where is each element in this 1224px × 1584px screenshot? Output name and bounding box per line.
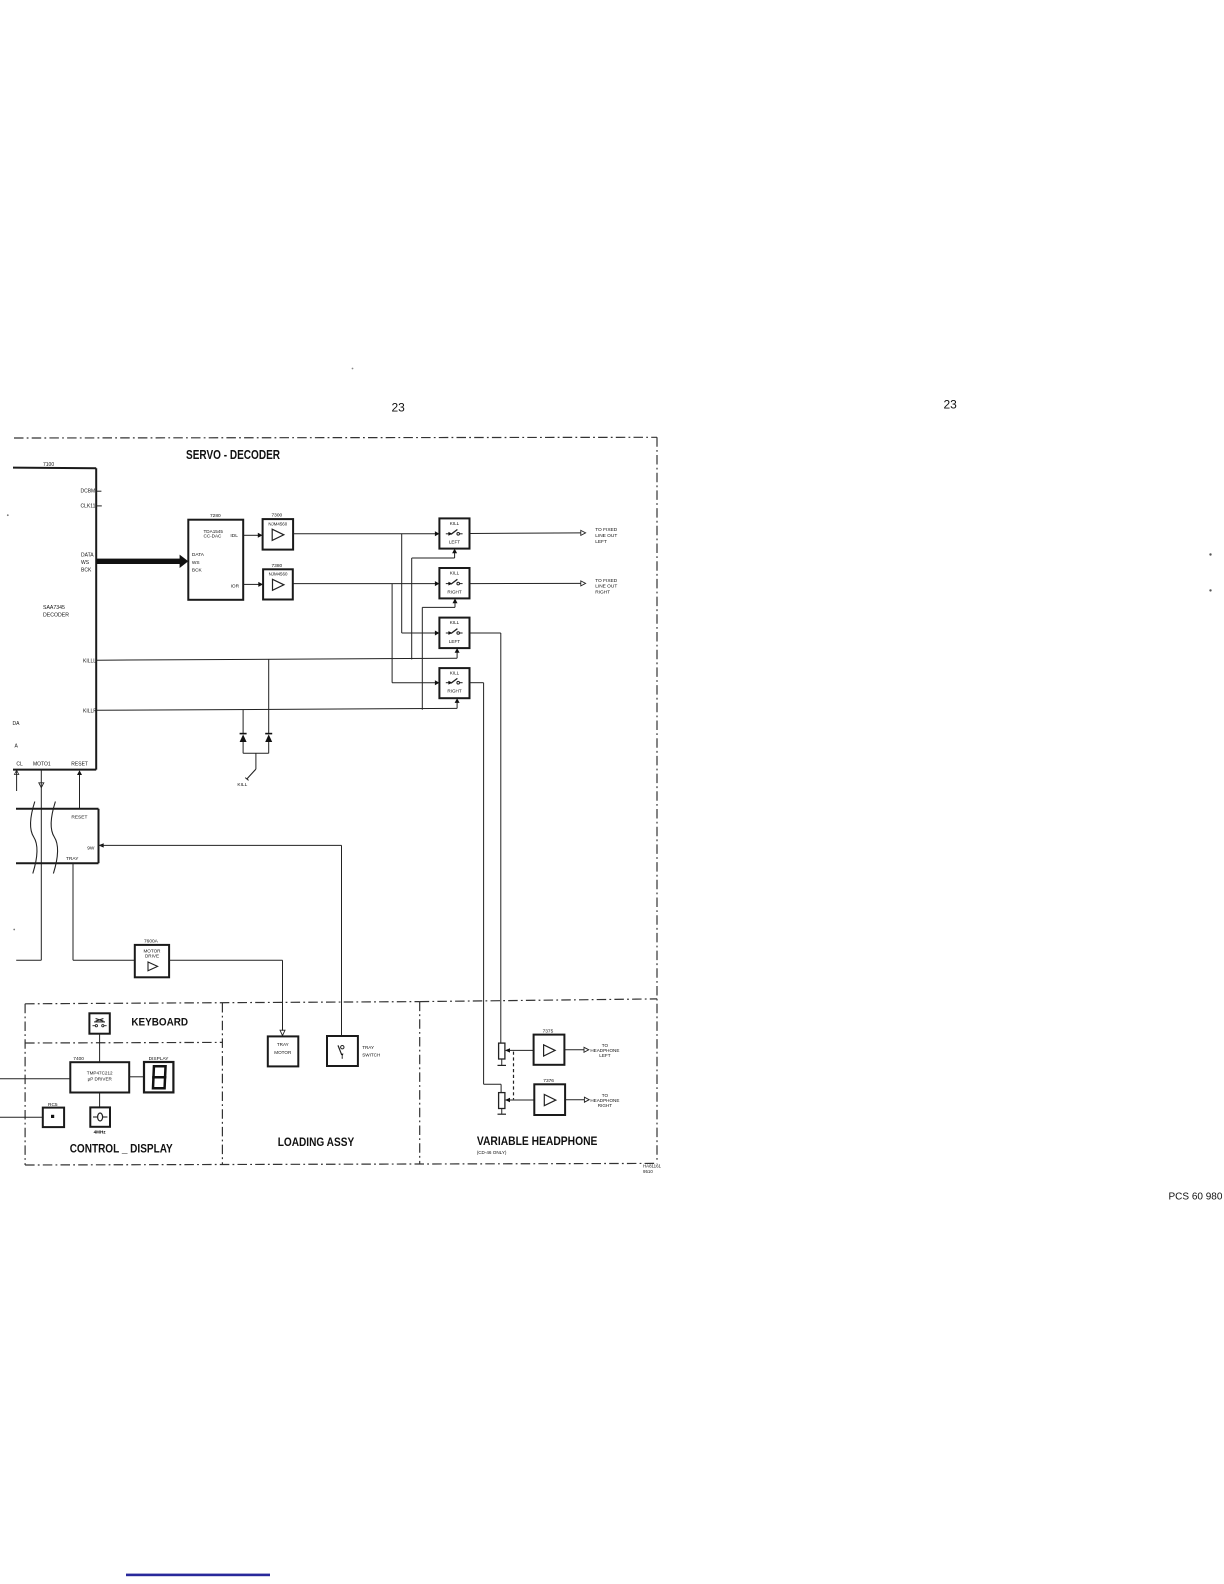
scan speck 1 [1209,553,1211,555]
diode D2 [265,734,272,754]
amp 7375 headphone left [534,1035,565,1065]
svg-text:MOTO1: MOTO1 [33,761,51,767]
svg-text:WS: WS [192,560,200,566]
wire 7376 output to headphone right [565,1097,589,1102]
svg-text:LEFT: LEFT [449,639,460,644]
RC5 receiver block [43,1108,64,1128]
svg-text:23: 23 [944,398,958,412]
switch block KILL LEFT 2 [439,618,469,649]
label TMP47C212 uP DRIVER [87,1071,113,1082]
tray switch S2 [327,1036,358,1066]
wire KILL LEFT 1 output to fixed line out left [470,530,586,535]
svg-text:IDL: IDL [230,533,238,539]
svg-text:LEFT: LEFT [599,1053,610,1058]
IC U7100 SAA7345 decoder block (cut off at left page edge) [13,468,96,770]
pin CLK11 [81,504,102,510]
svg-text:7380: 7380 [272,563,283,569]
scan speck 5 [352,368,354,370]
svg-text:4MHz: 4MHz [94,1130,107,1135]
wire TRAY to motor drive [73,863,135,960]
wire keyboard to uP [99,1034,101,1063]
potentiometer R2 (headphone level right) [498,1093,535,1115]
tray motor M1 [268,1036,299,1066]
svg-text:BCK: BCK [192,568,203,574]
svg-text:SERVO - DECODER: SERVO - DECODER [186,448,280,462]
svg-text:NJM4560: NJM4560 [268,521,287,526]
crystal X1 4MHz [90,1107,110,1126]
svg-text:KILLR: KILLR [83,709,97,715]
IC tray-control block (cut off, RESET / 9W / TRAY) [16,809,99,863]
junction bar below diodes [243,752,269,754]
IC 7400 TMP47C212 uP driver [70,1062,129,1092]
ganged wiper dashed link [513,1052,515,1100]
switch block KILL LEFT 1 [439,518,469,548]
scan speck 4 [13,929,15,931]
svg-text:SWITCH: SWITCH [362,1052,380,1057]
amp 7600A motor drive [135,945,169,977]
svg-text:DECODER: DECODER [43,613,69,619]
wire branch audio L down to KILL LEFT 2 [402,534,440,636]
wire KILL LEFT 2 output down to headphone pot 1 [470,633,501,1043]
svg-text:DA: DA [13,721,21,727]
wire KILL RIGHT 2 output down to headphone pot 2 [470,683,502,1093]
SERVO-DECODER dash-dot border right [656,437,658,1163]
scan speck 2 [1209,589,1211,591]
wire KILLL to diode D2 [268,659,270,733]
svg-text:KILL: KILL [450,521,460,526]
SERVO-DECODER dash-dot border top [14,436,657,439]
break mark wavy line 2 [51,802,58,874]
svg-text:7280: 7280 [210,513,221,519]
svg-text:RIGHT: RIGHT [595,590,610,596]
wire opamp7380 output to KILL RIGHT 1 (audio R) [293,581,440,586]
svg-text:RIGHT: RIGHT [447,589,461,594]
svg-text:PCS 60 980: PCS 60 980 [1169,1191,1223,1202]
svg-text:23: 23 [392,401,406,415]
thick data bus arrow decoder to DAC [96,555,188,568]
svg-text:7600A: 7600A [144,939,159,945]
svg-text:WS: WS [81,560,90,566]
svg-text:MOTOR: MOTOR [274,1050,292,1055]
svg-text:TRAY: TRAY [66,856,79,862]
RC5 sensor dot [51,1115,54,1118]
pin labels DATA WS BCK (DAC) [192,552,205,574]
pin labels DATA WS BCK (decoder) [81,552,94,573]
wire motor drive to tray motor [169,960,285,1035]
section divider loading/headphone [419,1002,421,1164]
svg-text:DRIVE: DRIVE [145,954,159,959]
wire branch audio R down to KILL RIGHT 2 [392,584,439,686]
pin RESET (decoder bottom) [71,761,88,808]
svg-text:CL: CL [16,761,23,767]
wire uP to crystal [99,1093,101,1108]
svg-text:RIGHT: RIGHT [598,1103,612,1108]
svg-text:LEFT: LEFT [449,540,460,545]
net KILLR from decoder [83,698,460,715]
svg-text:DCBM: DCBM [81,489,96,495]
scan speck 3 [7,514,9,516]
bottom sections dash-dot outer border [25,999,657,1165]
svg-text:7400: 7400 [73,1056,84,1062]
svg-text:LINE OUT: LINE OUT [595,584,617,590]
IC 7280 TDA1545 CC-DAC block [188,520,243,600]
keyboard sub-section dash-dot partition [25,1041,222,1044]
wire IOR to opamp 7380 [243,582,263,587]
svg-text:CLK11: CLK11 [81,504,96,510]
7-segment digit 8 [153,1066,166,1088]
keyboard key switch S1 [89,1013,109,1033]
pin CL (decoder bottom) [14,761,23,791]
svg-text:RESET: RESET [71,814,87,820]
potentiometer R1 (headphone level left) [498,1043,534,1065]
switch block KILL RIGHT 2 [439,668,469,698]
wire 9W to tray switch [99,843,342,1036]
svg-text:(CD-46 ONLY): (CD-46 ONLY) [477,1150,507,1155]
label TDA1545 CC-DAC [204,529,224,539]
label TRAY SWITCH [362,1045,380,1058]
pin MOTO1 (decoder bottom) [16,761,51,960]
svg-text:RC5: RC5 [48,1102,58,1108]
op-amp 7380 NJM4560 [263,569,293,599]
svg-text:LEFT: LEFT [595,539,607,545]
label TO FIXED LINE OUT RIGHT [595,578,618,596]
svg-text:IOR: IOR [231,584,240,590]
drawing number HA81161 9510 [643,1164,662,1174]
amp 7376 headphone right [534,1084,565,1115]
net KILLL from decoder [83,648,460,664]
svg-text:DISPLAY: DISPLAY [149,1056,170,1062]
wire RC5 left (off page) [0,1116,43,1118]
svg-text:BCK: BCK [81,568,92,574]
wire 7375 output to headphone left [564,1047,588,1052]
break mark wavy line 1 [30,802,37,874]
svg-text:TRAY: TRAY [362,1045,374,1050]
svg-text:KILL: KILL [450,571,460,576]
svg-text:TMP47C212: TMP47C212 [87,1071,113,1076]
label TO HEADPHONE LEFT [590,1043,619,1058]
svg-text:9510: 9510 [643,1169,653,1174]
wire IDL to opamp 7300 [243,533,262,538]
wire KILLR branch up to KILL RIGHT 1 control [422,598,457,709]
svg-text:7100: 7100 [43,462,54,468]
label TO FIXED LINE OUT LEFT [595,527,618,545]
svg-text:KILLL: KILLL [83,658,96,664]
svg-text:MOTOR: MOTOR [143,948,161,953]
svg-text:VARIABLE HEADPHONE: VARIABLE HEADPHONE [477,1134,598,1148]
svg-text:7375: 7375 [543,1028,554,1034]
switch KILL (open lever) [245,753,256,780]
section divider control/loading [221,1003,223,1165]
svg-text:TO FIXED: TO FIXED [595,578,618,584]
wire opamp7300 output to KILL LEFT 1 (audio L) [293,531,439,536]
svg-text:CC-DAC: CC-DAC [204,534,223,539]
wire KILLR to diode D1 [242,710,244,734]
svg-text:KEYBOARD: KEYBOARD [131,1017,188,1029]
svg-text:SAA7345: SAA7345 [43,605,65,611]
wire KILL RIGHT 1 output to fixed line out right [470,581,586,586]
svg-text:LINE OUT: LINE OUT [595,533,617,539]
svg-text:KILL: KILL [450,620,460,625]
wire uP left (off page) [0,1078,70,1080]
wire uP to display [129,1076,144,1078]
svg-text:DATA: DATA [81,552,94,558]
svg-text:KILL: KILL [237,782,247,788]
svg-text:NJM4560: NJM4560 [269,571,288,576]
label TO HEADPHONE RIGHT [590,1093,619,1108]
svg-text:LOADING ASSY: LOADING ASSY [278,1135,355,1149]
blue underline mark bottom left [126,1574,270,1577]
switch block KILL RIGHT 1 [439,568,469,598]
svg-text:RESET: RESET [71,761,88,767]
svg-text:DATA: DATA [192,552,205,558]
svg-text:TRAY: TRAY [277,1042,289,1047]
wire KILLL branch up to KILL LEFT 1 control [412,549,457,660]
diode D1 [240,734,247,754]
svg-text:KILL: KILL [450,671,460,676]
display block (7-segment) [144,1062,173,1092]
svg-text:TO FIXED: TO FIXED [595,527,618,533]
pin DCBM [81,489,102,495]
op-amp 7300 NJM4560 [263,519,294,550]
svg-text:7376: 7376 [543,1078,554,1084]
svg-text:RIGHT: RIGHT [447,689,461,694]
svg-text:CONTROL _ DISPLAY: CONTROL _ DISPLAY [70,1141,173,1155]
svg-text:9W: 9W [87,845,95,851]
svg-text:7300: 7300 [272,513,283,519]
svg-text:µP DRIVER: µP DRIVER [88,1076,113,1081]
